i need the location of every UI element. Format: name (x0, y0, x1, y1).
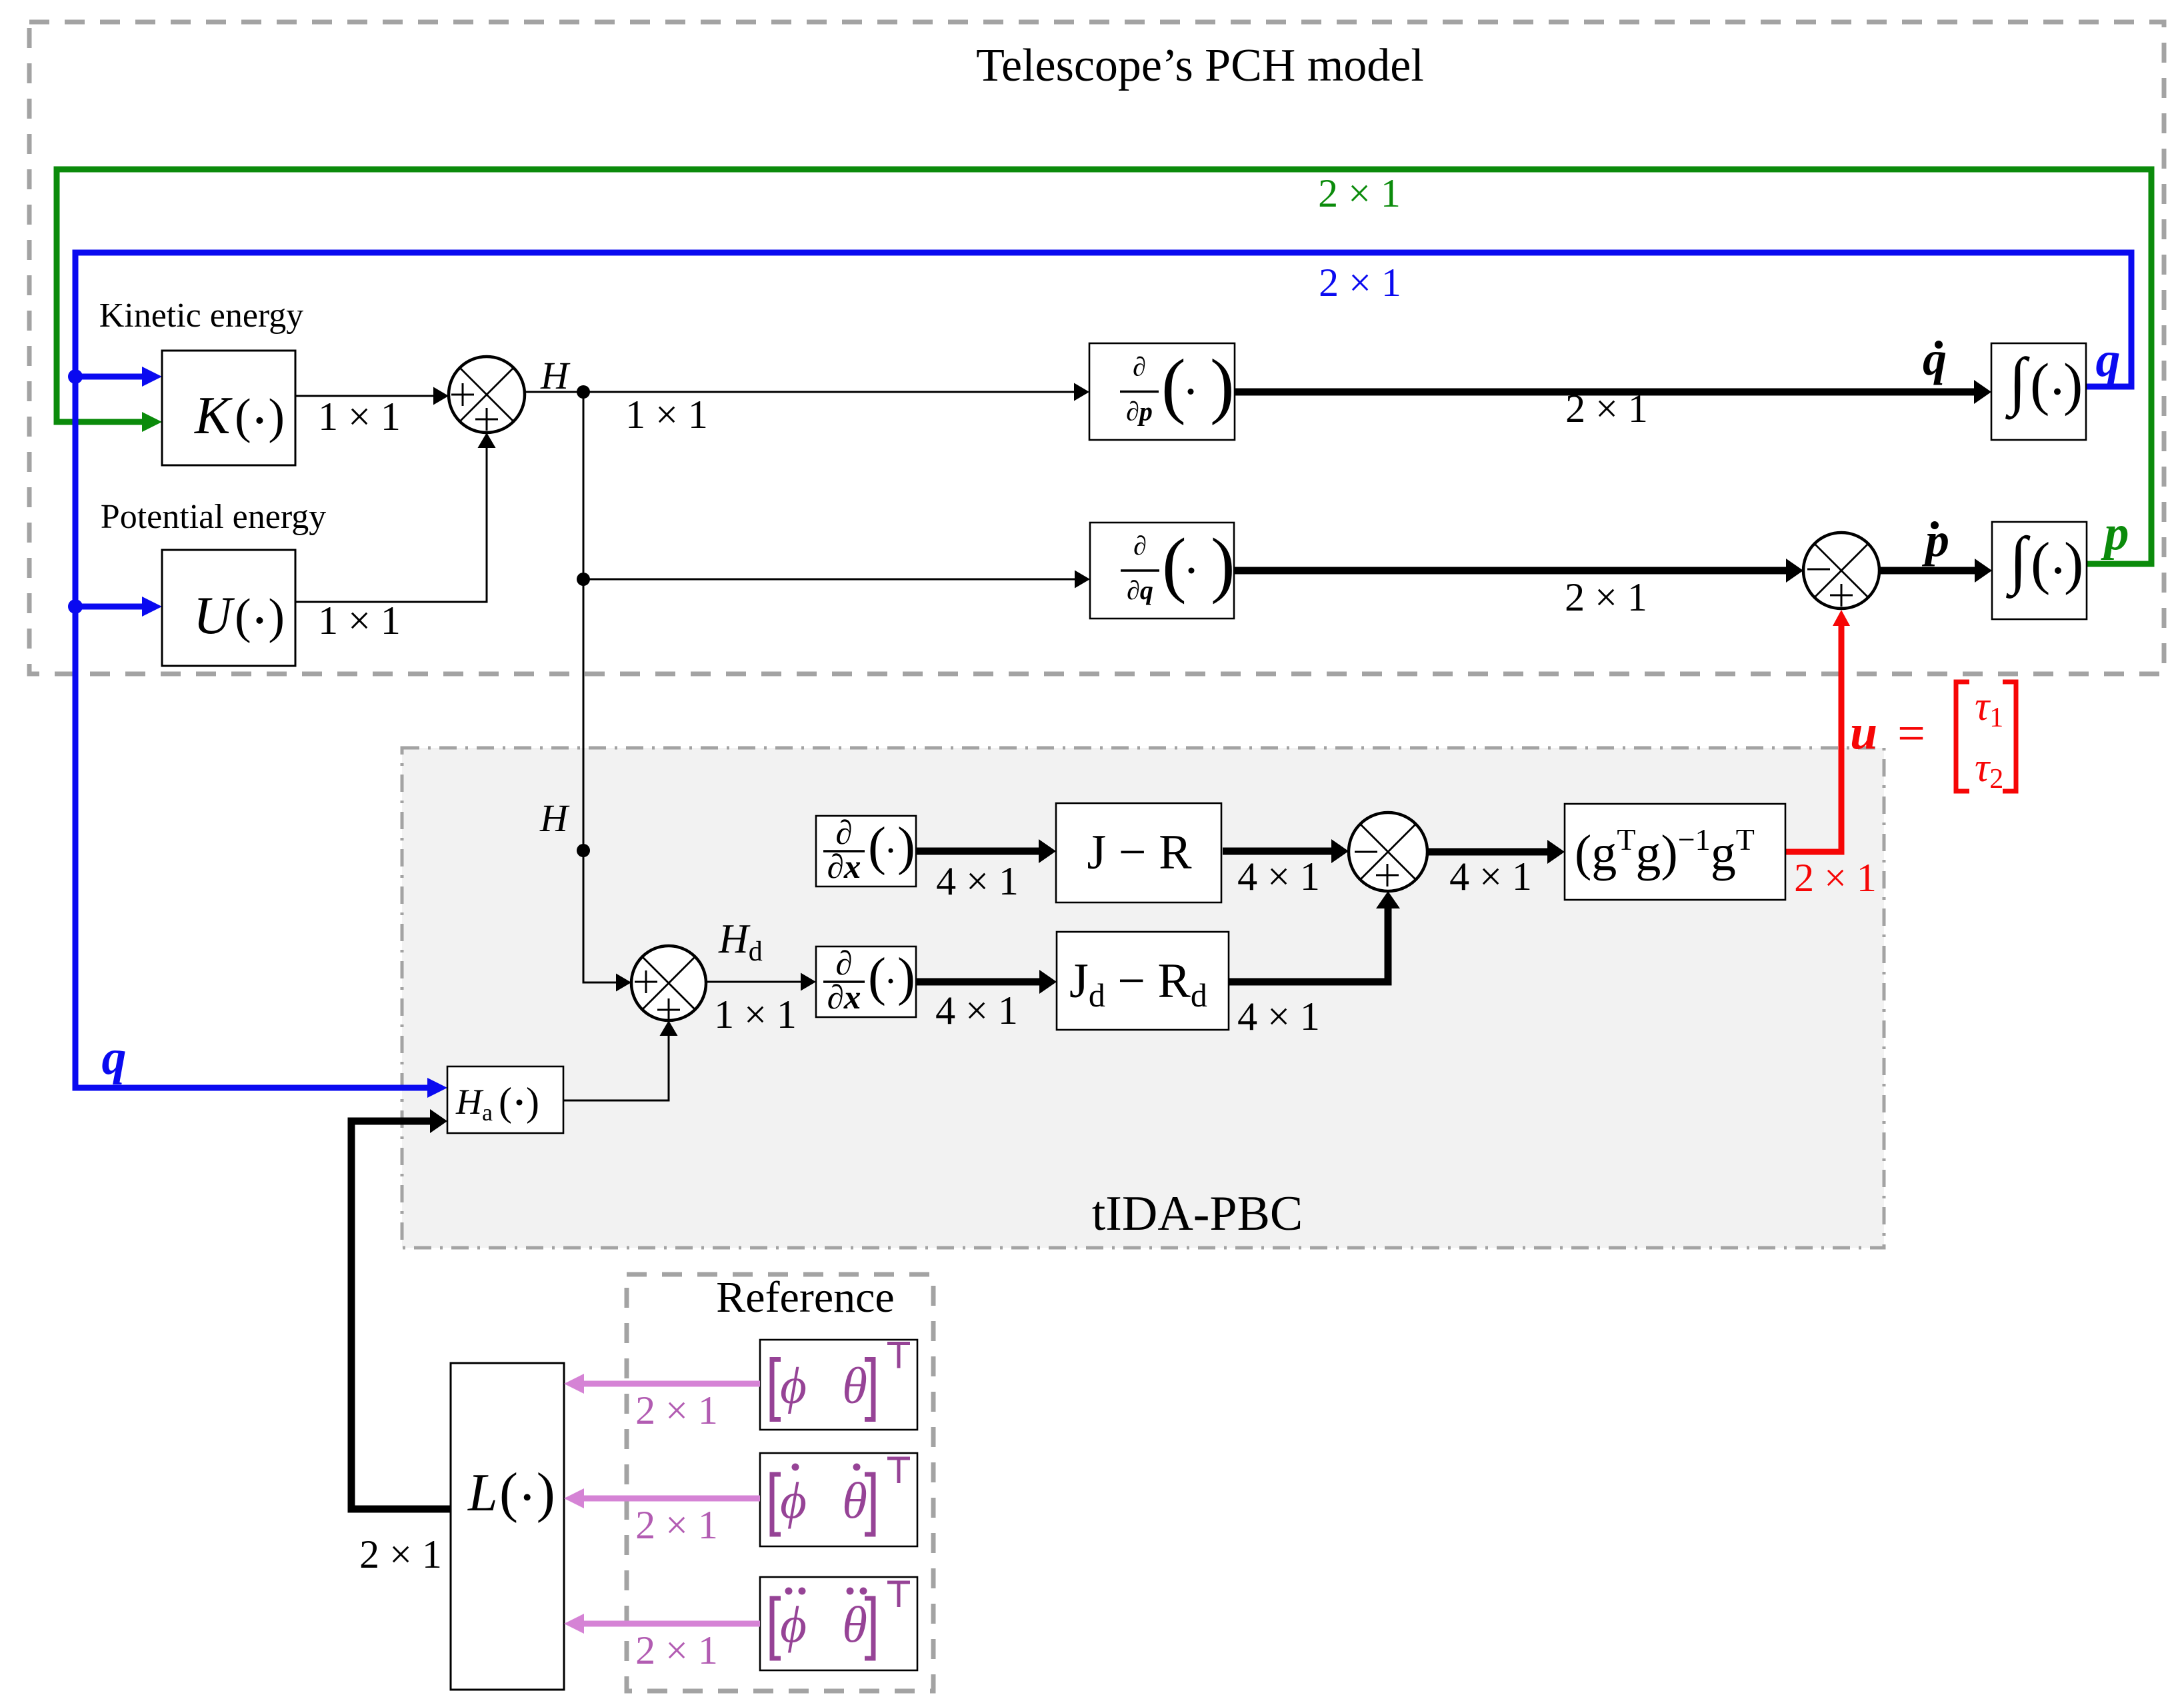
wire sum to g block (1427, 849, 1547, 856)
svg-text:ϕ: ϕ (780, 1472, 807, 1529)
PCH model dashed box (29, 22, 2164, 674)
svg-text:θ: θ (842, 1472, 867, 1529)
svg-text:2 × 1: 2 × 1 (1318, 171, 1401, 215)
svg-text:2 × 1: 2 × 1 (1319, 261, 1401, 305)
block (gTg)^-1 gT (1565, 804, 1785, 900)
svg-text:2 × 1: 2 × 1 (635, 1503, 718, 1547)
svg-text:∂: ∂ (835, 945, 852, 982)
Reference dashed box (627, 1274, 933, 1691)
svg-text:): ) (268, 389, 285, 444)
svg-text:∂: ∂ (1133, 531, 1147, 561)
svg-text:U: U (193, 587, 235, 645)
svg-text:Telescope’s PCH model: Telescope’s PCH model (976, 40, 1424, 91)
svg-text:(: ( (499, 1462, 518, 1524)
svg-text:): ) (897, 816, 915, 876)
wire green p feedback (57, 169, 2151, 564)
wire pdot (1879, 567, 1975, 575)
svg-text:): ) (897, 946, 915, 1006)
svg-text:1 × 1: 1 × 1 (318, 599, 401, 643)
svg-text:2 × 1: 2 × 1 (635, 1388, 718, 1432)
svg-text:(: ( (868, 816, 886, 876)
svg-text:4 × 1: 4 × 1 (936, 859, 1019, 903)
wire qdot (1235, 389, 1974, 396)
svg-text:p: p (1921, 513, 1949, 567)
svg-text:1 × 1: 1 × 1 (625, 393, 708, 437)
tIDA-PBC dash-dot box (402, 748, 1884, 1248)
svg-text:θ: θ (842, 1596, 867, 1653)
svg-text:H: H (540, 354, 571, 397)
svg-text:Kinetic energy: Kinetic energy (99, 297, 304, 335)
svg-text:): ) (268, 589, 285, 644)
block Ha (447, 1066, 563, 1133)
svg-text:θ: θ (842, 1357, 867, 1414)
svg-text:1 × 1: 1 × 1 (714, 992, 797, 1036)
wire K output (295, 395, 434, 397)
svg-text:2 × 1: 2 × 1 (635, 1628, 718, 1672)
block integrator 2 (1992, 522, 2087, 619)
node junction dots blue (68, 369, 83, 384)
wire U output (295, 447, 487, 602)
wire dH/dq to sum (1234, 567, 1786, 575)
svg-text:∫: ∫ (2005, 345, 2030, 420)
block reference phidot thetadot (760, 1453, 917, 1546)
svg-text:Potential energy: Potential energy (101, 498, 326, 536)
svg-text:2 × 1: 2 × 1 (1565, 575, 1647, 619)
block L (451, 1363, 564, 1690)
wire H vertical trunk (583, 392, 617, 982)
svg-text:∂: ∂ (1133, 352, 1146, 382)
block dH/dx 1 (816, 816, 916, 886)
svg-text:(: ( (235, 389, 251, 444)
wire H to dH/dp (525, 391, 1075, 393)
svg-text:(gTg)−1gT: (gTg)−1gT (1575, 823, 1755, 881)
wire H branch to dH/dq (583, 579, 1075, 581)
block Jd-Rd (1057, 932, 1229, 1030)
wire ref1 to L (584, 1381, 760, 1387)
svg-text:(: ( (2030, 353, 2049, 417)
svg-text:∫: ∫ (2005, 524, 2031, 599)
summing junction H = K + U (449, 357, 525, 433)
wire blue branch to K (75, 374, 142, 380)
svg-text:p: p (2101, 506, 2129, 561)
wire ref2 to L (584, 1496, 760, 1502)
svg-text:2 × 1: 2 × 1 (1565, 387, 1648, 431)
svg-text:(: ( (1161, 345, 1186, 426)
svg-text:q: q (1923, 332, 1947, 385)
wire u control input red (1785, 625, 1841, 852)
wire L to Ha (351, 1121, 451, 1509)
block dH/dq (1090, 523, 1234, 619)
block dH/dx 2 (816, 946, 916, 1017)
wire blue branch to U (75, 604, 142, 610)
wire Jd-Rd to sum (1229, 908, 1388, 982)
svg-text:tIDA-PBC: tIDA-PBC (1092, 1186, 1303, 1241)
svg-text:4 × 1: 4 × 1 (1237, 854, 1320, 898)
svg-text:4 × 1: 4 × 1 (1237, 994, 1320, 1038)
svg-text:∂: ∂ (835, 815, 852, 852)
node junction dots on H net (577, 385, 590, 399)
block dH/dp (1089, 343, 1235, 440)
summing junction 4x1 (1349, 813, 1427, 891)
wire blue q feedback (75, 253, 2131, 1088)
svg-text:): ) (1210, 345, 1235, 426)
svg-text:∂x: ∂x (827, 849, 861, 886)
wire Hd to dH/dx 2 (706, 981, 801, 983)
block integrator 1 (1991, 343, 2086, 440)
block reference phiddot thetaddot (760, 1577, 917, 1670)
svg-text:(: ( (1162, 523, 1187, 605)
svg-text:): ) (526, 1080, 539, 1124)
svg-text:J − R: J − R (1087, 825, 1193, 880)
svg-text:u: u (1850, 705, 1877, 760)
svg-text:K: K (194, 387, 233, 445)
svg-text:): ) (2063, 353, 2083, 417)
svg-text:2 × 1: 2 × 1 (359, 1532, 442, 1576)
svg-text:2 × 1: 2 × 1 (1794, 856, 1877, 900)
svg-text:∂x: ∂x (827, 979, 861, 1016)
svg-text:ϕ: ϕ (780, 1357, 807, 1414)
wire to J-R (916, 848, 1039, 855)
svg-text:∂q: ∂q (1127, 575, 1153, 605)
svg-text:(: ( (2031, 531, 2050, 596)
wire J-R to sum (1223, 848, 1331, 855)
wire Ha to Hd sum (563, 1035, 669, 1100)
svg-text:(: ( (868, 946, 886, 1006)
svg-text:): ) (537, 1462, 555, 1524)
summing junction Hd (631, 946, 706, 1020)
svg-text:4 × 1: 4 × 1 (1449, 854, 1532, 898)
svg-text:=: = (1897, 707, 1925, 761)
svg-text:1 × 1: 1 × 1 (318, 395, 401, 439)
svg-text:Reference: Reference (716, 1273, 894, 1322)
block reference phi theta (760, 1340, 917, 1430)
block J-R (1056, 803, 1221, 902)
svg-text:q: q (102, 1030, 127, 1085)
svg-text:ϕ: ϕ (780, 1596, 807, 1653)
svg-text:∂p: ∂p (1126, 397, 1153, 427)
svg-text:4 × 1: 4 × 1 (935, 988, 1018, 1032)
svg-text:L: L (467, 1464, 498, 1522)
svg-text:): ) (2064, 531, 2083, 596)
svg-text:(: ( (235, 589, 251, 644)
svg-text:(: ( (499, 1080, 512, 1124)
wire ref3 to L (584, 1621, 760, 1627)
svg-text:H: H (539, 797, 570, 840)
summing junction pdot (1803, 533, 1879, 609)
svg-text:q: q (2096, 333, 2121, 387)
wire to Jd-Rd (916, 978, 1039, 986)
svg-text:): ) (1211, 523, 1235, 605)
